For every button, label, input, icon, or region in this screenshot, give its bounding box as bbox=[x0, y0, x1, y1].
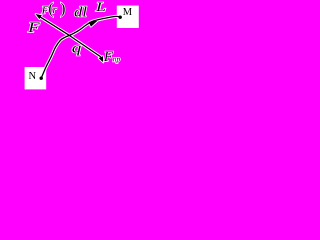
svg-text:): ) bbox=[60, 1, 65, 18]
svg-text:M: M bbox=[123, 7, 133, 18]
node M box bbox=[117, 6, 139, 29]
vector F arrowhead bbox=[36, 14, 42, 19]
endpoint dot at N bbox=[40, 77, 43, 80]
svg-text:q: q bbox=[72, 41, 82, 57]
path L curve from N to M bbox=[41, 16, 120, 78]
opposite arrow shaft (down-right) bbox=[70, 36, 101, 57]
node N box bbox=[25, 67, 47, 89]
vector F shaft (up-left from point on curve) bbox=[38, 16, 69, 36]
svg-text:L: L bbox=[95, 0, 107, 14]
white casing under all strokes bbox=[38, 15, 121, 78]
svg-text:N: N bbox=[29, 71, 37, 82]
svg-text:пр: пр bbox=[113, 54, 121, 63]
svg-text:F: F bbox=[27, 20, 40, 36]
opposite arrowhead bbox=[99, 56, 104, 62]
dl direction arrowhead on curve bbox=[89, 21, 98, 27]
endpoint dot at M bbox=[119, 16, 122, 19]
svg-text:dl: dl bbox=[74, 5, 87, 21]
